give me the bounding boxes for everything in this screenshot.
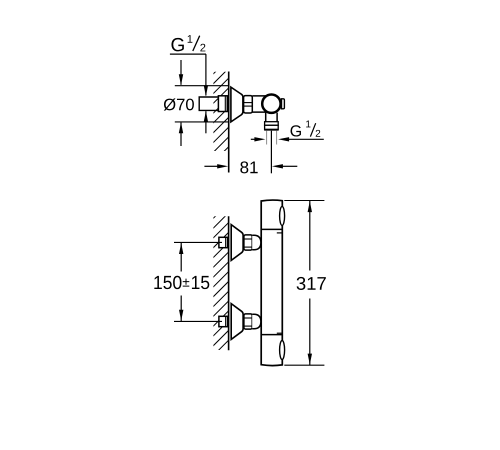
threaded coupling (244, 235, 252, 250)
dim 150±15 line + arrows (180, 242, 182, 271)
wall (bottom view) (228, 216, 230, 350)
dim 317 extension lines (284, 200, 324, 202)
union nipple (219, 316, 228, 326)
side cap right of circle (282, 99, 285, 109)
cap seam bottom (261, 334, 282, 336)
round valve head (circle) (262, 95, 280, 113)
rounded nub to bar (252, 235, 261, 250)
G1/2 leader + arrows at pipe (205, 54, 207, 95)
thermostat bar body (261, 200, 282, 366)
dia70 arrows (180, 60, 182, 85)
wall (top view) (228, 72, 230, 173)
seam tick bottom (277, 332, 283, 334)
label G1/2 (hose) (291, 125, 301, 136)
label G1/2 (top) (171, 38, 183, 51)
escutcheon cone (231, 225, 243, 261)
elbow neck below circle (265, 113, 267, 122)
dim 81 (204, 165, 217, 167)
label dia70 (164, 98, 176, 110)
hose nut rings (265, 122, 279, 126)
union nipple (219, 237, 228, 247)
valve body cylinder (252, 96, 266, 112)
escutcheon cone (231, 304, 243, 340)
bottom knob (edge ellipse) (280, 341, 285, 360)
seam tick top (277, 232, 283, 234)
dim 150±15 extension lines (174, 241, 222, 243)
cap seam top (261, 228, 282, 230)
label 150±15 (154, 276, 181, 289)
hex nut (244, 96, 253, 113)
top knob (edge ellipse) (280, 206, 285, 225)
dim 317 line + arrows (309, 201, 311, 271)
wall hatching (bottom view) (212, 202, 229, 366)
label 81 (240, 161, 248, 173)
rounded nub to bar (252, 314, 261, 329)
hose centre line (270, 131, 272, 174)
hose outer lines (266, 131, 268, 145)
supply pipe in wall (199, 97, 219, 110)
threaded nipple G1/2 (218, 96, 227, 112)
dia70 extension lines (175, 85, 229, 87)
escutcheon cone (top view) (231, 87, 243, 122)
threaded coupling (244, 314, 252, 329)
wall hatching (top view) (212, 58, 229, 173)
label 317 (297, 277, 306, 290)
